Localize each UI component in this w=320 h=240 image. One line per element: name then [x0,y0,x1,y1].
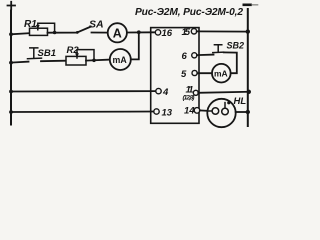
svg-text:Рис-Э2М, Рис-Э2М-0,2: Рис-Э2М, Рис-Э2М-0,2 [135,7,243,18]
wire pin15 to right rail [197,30,248,32]
svg-text:5: 5 [181,69,187,80]
ammeter A1 [108,23,127,42]
node row3-left rail junction [9,90,13,94]
pushbutton SB2 [213,51,224,53]
plus terminal [8,2,16,9]
svg-text:HL: HL [234,96,247,107]
pin 14 [194,108,200,114]
wire SB2 to mA2 [224,52,237,73]
pin 6 [192,53,197,58]
left supply rail [10,11,12,125]
node row4-left rail junction [9,110,13,114]
svg-text:R2: R2 [67,45,80,56]
pin 15 [191,29,196,34]
pin 13 [154,109,159,114]
resistor R2 [66,56,86,65]
minus terminal [244,4,251,7]
svg-text:16: 16 [162,28,173,39]
switch SA [77,27,91,33]
wire pin6 to SB2 [197,54,214,57]
svg-text:14: 14 [184,105,195,116]
device box Рис-Э2М [151,28,199,124]
svg-text:R1: R1 [24,19,37,30]
node R1 wiper junction [53,31,57,35]
milliammeter mA2 [212,64,231,83]
svg-text:SB2: SB2 [227,40,245,50]
wire rail to R1 [11,33,30,34]
lamp HL [207,99,235,127]
node meters junction [137,30,141,34]
node pin15 rail junction [246,29,250,33]
wire SB1 to R2 [41,60,66,63]
svg-text:4: 4 [162,87,169,98]
wire pin5 to mA2 [197,72,212,74]
node lamp rail junction [246,110,250,114]
svg-text:(12,8): (12,8) [183,94,195,101]
pin 16 [155,30,160,35]
resistor R1 [30,28,48,35]
svg-text:mA: mA [214,68,228,78]
wire junction down to mA1 [131,32,139,59]
wire pin14 to lamp [200,109,208,111]
svg-text:A: A [113,26,122,40]
svg-text:15: 15 [182,27,191,38]
wire pin11 to right rail [198,92,249,93]
svg-text:SB1: SB1 [38,48,56,59]
pushbutton SB1 [28,57,42,60]
wire lamp to right rail [236,111,248,113]
wire R2 to mA1 [86,60,110,61]
svg-text:6: 6 [182,51,188,62]
wire R1 to SA [48,32,77,34]
wire R1 wiper [38,23,55,32]
svg-text:SA: SA [89,19,104,31]
node row2-left rail junction [9,61,13,65]
pin 11 [193,90,198,95]
node row1-left rail junction [9,32,13,36]
wire rail to SB1 [11,62,29,63]
milliammeter mA1 [110,49,131,70]
wire row4 rail to pin13 [11,111,154,114]
node R2 wiper junction [92,59,96,63]
wire ammeter to pin16 [127,31,155,33]
right supply rail [247,9,249,126]
pin 4 [156,88,161,93]
svg-text:mA: mA [113,55,128,65]
wire SA to ammeter [92,32,108,34]
wire R2 wiper [77,50,94,61]
wire row3 rail to pin4 [11,90,156,92]
svg-text:13: 13 [162,108,173,119]
pin 5 [192,70,197,75]
node pin11 rail junction [247,90,251,94]
